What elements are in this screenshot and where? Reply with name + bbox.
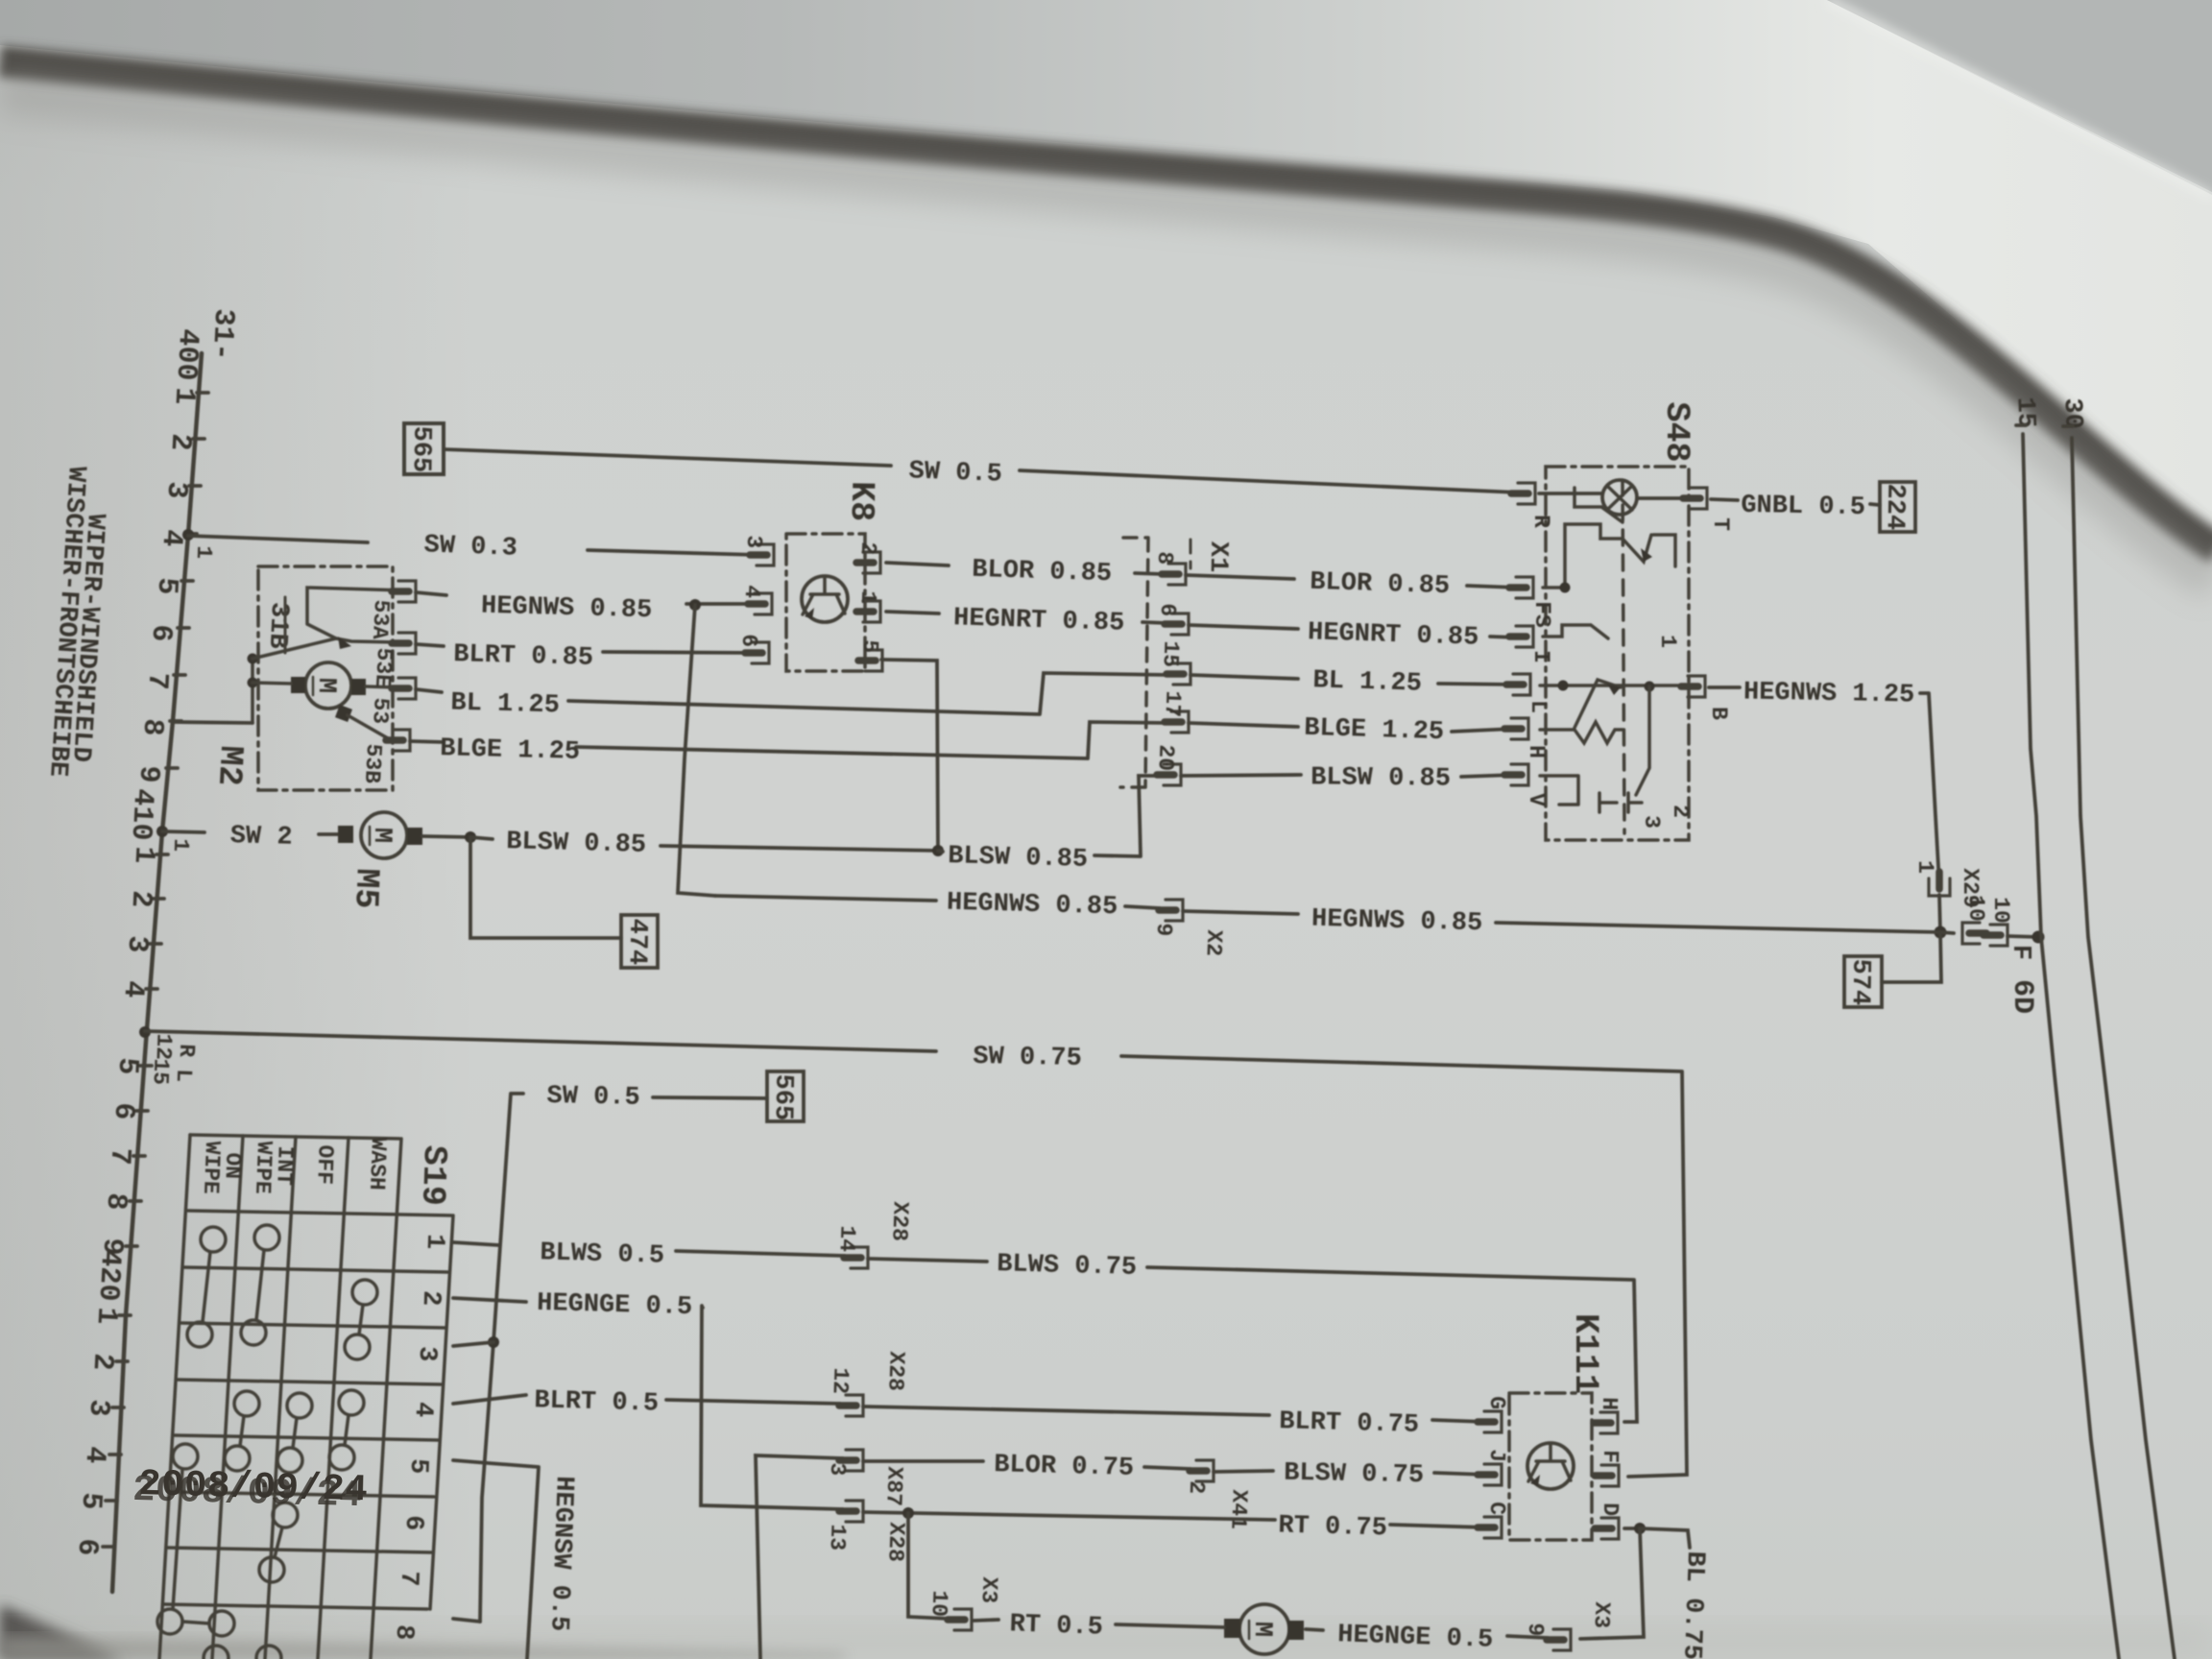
M2 internal wiper contact arm	[252, 588, 404, 659]
junction node HEGNWS/574/F6D	[1935, 926, 1947, 939]
svg-text:3: 3	[82, 1398, 115, 1417]
svg-text:V: V	[1524, 793, 1549, 806]
wire BLWS 0.5 (S19-1 to X28-14)	[453, 1242, 845, 1256]
terminal box 474	[621, 915, 658, 968]
svg-text:15: 15	[148, 1058, 174, 1085]
connector X29 pin 1	[1929, 872, 1950, 896]
svg-text:HEGNGE 0.5: HEGNGE 0.5	[1337, 1621, 1494, 1655]
svg-text:X28: X28	[882, 1522, 908, 1562]
svg-text:2: 2	[416, 1290, 445, 1307]
svg-text:53A: 53A	[367, 599, 394, 640]
bottom-left dark page corner	[0, 1605, 125, 1659]
S48 pin H	[1504, 718, 1528, 739]
svg-text:M: M	[367, 828, 396, 844]
svg-text:D: D	[1598, 1503, 1623, 1516]
svg-text:53E: 53E	[370, 647, 397, 688]
svg-text:FS: FS	[1529, 601, 1554, 628]
svg-text:6: 6	[144, 623, 178, 642]
junction node BLSW/K8-5	[932, 845, 944, 856]
svg-text:BLSW 0.75: BLSW 0.75	[1284, 1459, 1424, 1491]
svg-text:2008/09/24: 2008/09/24	[138, 1463, 369, 1511]
wire BL 1.25 (X1-15 to S48 L)	[1190, 675, 1515, 685]
svg-text:1: 1	[1912, 860, 1937, 874]
svg-text:4: 4	[408, 1402, 438, 1418]
wire from K8-5 down to BLSW row	[881, 660, 938, 851]
svg-text:HEGNRT 0.85: HEGNRT 0.85	[1308, 618, 1479, 653]
svg-text:3: 3	[741, 535, 766, 549]
svg-text:565: 565	[406, 425, 436, 472]
S48 pin T	[1683, 488, 1707, 509]
S48 internal zigzag	[1540, 722, 1623, 743]
svg-text:SW 0.5: SW 0.5	[908, 457, 1002, 489]
X1 pin 20	[1157, 764, 1181, 785]
K8 coil symbol	[802, 576, 848, 622]
wire BL 0.75 stub from K111-D	[1640, 1528, 1690, 1548]
washer pump motor M1	[1239, 1604, 1289, 1654]
svg-text:12: 12	[828, 1367, 854, 1394]
wire S19-3 to SW 0.5 junction	[453, 1342, 493, 1346]
svg-text:5: 5	[74, 1491, 108, 1510]
svg-text:224: 224	[1880, 483, 1910, 530]
svg-text:1: 1	[420, 1234, 449, 1250]
junction node on bus 15	[2032, 931, 2045, 944]
svg-text:2: 2	[1668, 805, 1693, 818]
wire HEGNSW 0.5 (S19-5 down off page)	[453, 1460, 539, 1659]
wire BLOR 0.75 (from bottom via X87-3)	[756, 1455, 843, 1659]
svg-text:GNBL 0.5: GNBL 0.5	[1741, 492, 1865, 522]
svg-text:565: 565	[768, 1073, 798, 1120]
svg-text:3: 3	[159, 480, 193, 499]
svg-text:BLSW 0.85: BLSW 0.85	[1310, 763, 1451, 793]
X1 pin 8	[1162, 564, 1186, 585]
svg-text:420: 420	[91, 1249, 127, 1303]
svg-text:1: 1	[1655, 635, 1680, 648]
bus 410 track numbers	[95, 845, 160, 1256]
wire BLRT 0.85 (M2 53E to K8 pin6)	[416, 644, 754, 653]
svg-text:HEGNGE 0.5: HEGNGE 0.5	[537, 1289, 693, 1322]
svg-text:M: M	[1247, 1622, 1276, 1638]
svg-text:BLRT 0.85: BLRT 0.85	[453, 640, 594, 673]
svg-text:R: R	[1528, 515, 1553, 528]
svg-text:6: 6	[398, 1515, 428, 1531]
svg-text:BLSW 0.85: BLSW 0.85	[506, 828, 647, 860]
wire BLWS 0.75 (X28-14 to K111-H)	[868, 1259, 1637, 1422]
S48 pin L	[1506, 674, 1530, 695]
svg-text:20: 20	[1153, 744, 1179, 771]
wire HEGNWS vertical drop to lower row	[678, 605, 715, 896]
node at track 410-5 (SW 0.75 tap)	[139, 1026, 151, 1038]
svg-text:474: 474	[622, 918, 652, 965]
svg-text:53: 53	[367, 697, 393, 725]
svg-text:1: 1	[168, 838, 193, 853]
svg-text:SW 0.5: SW 0.5	[546, 1082, 640, 1113]
junction on HEGNWS wire	[689, 599, 701, 611]
title WISCHER-FRONTSCHEIBE / WIPER-WINDSHIELD	[42, 466, 109, 778]
svg-text:10: 10	[1963, 895, 1988, 922]
svg-text:X28: X28	[882, 1351, 908, 1391]
svg-text:4: 4	[155, 528, 188, 547]
node at track 400-4	[182, 529, 194, 541]
svg-text:2: 2	[124, 889, 157, 908]
S19 contact circles and bridges	[157, 1225, 377, 1659]
wire HEGNWS 0.85 (X2-9 to F6D junction)	[1183, 911, 1940, 932]
svg-text:8: 8	[389, 1624, 419, 1641]
K8 pin 1	[856, 601, 880, 622]
S48 pin B	[1681, 676, 1705, 697]
svg-text:1: 1	[167, 386, 201, 405]
svg-text:H: H	[1597, 1397, 1622, 1410]
M2 motor symbol	[305, 662, 351, 709]
terminal box 565 (lower)	[767, 1071, 804, 1121]
svg-text:R: R	[174, 1044, 199, 1058]
M2 internal feed from bus with junction nodes	[251, 658, 254, 723]
svg-text:S48: S48	[1657, 401, 1695, 462]
connector X3 pin 10	[948, 1609, 972, 1630]
svg-text:31B: 31B	[262, 601, 294, 649]
wire SW 0.5 (to terminal 565 lower, and down to S19)	[480, 1094, 767, 1622]
svg-text:SW 0.3: SW 0.3	[423, 531, 517, 563]
wire BLOR 0.75 (X87-3 to X41-2)	[863, 1461, 1190, 1469]
svg-text:ON: ON	[220, 1152, 246, 1179]
bus 400 track ticks	[166, 393, 208, 768]
grey backdrop corner top-right	[1827, 0, 2212, 192]
wire HEGNRT 0.85 (K8-1 to X1-6)	[886, 612, 1166, 623]
svg-text:HEGNRT 0.85: HEGNRT 0.85	[953, 604, 1125, 638]
wire HEGNWS 1.25 (S48-B right and down)	[1709, 687, 1940, 932]
wire BLSW 0.85 (X1-20 to S48 V)	[1181, 775, 1515, 777]
svg-text:6: 6	[1155, 603, 1180, 617]
K8 pin 4	[748, 593, 772, 614]
junction node SW0.5 / S19-3	[488, 1336, 499, 1348]
bus 400 track numbers	[132, 386, 201, 783]
svg-text:X87: X87	[880, 1466, 906, 1506]
svg-text:BLWS 0.75: BLWS 0.75	[997, 1250, 1138, 1283]
wire S19-8 to SW 0.5 vertical	[453, 1619, 480, 1622]
svg-text:5: 5	[403, 1458, 433, 1475]
svg-text:HEGNWS 1.25: HEGNWS 1.25	[1743, 678, 1915, 709]
connector X28 pin 12	[839, 1395, 863, 1416]
svg-text:1: 1	[855, 590, 880, 605]
S48 internal contact mechanism middle (L to B)	[1540, 684, 1695, 687]
svg-text:17: 17	[1160, 690, 1186, 717]
connector X28 pin 14	[844, 1247, 868, 1268]
S48 pin V	[1504, 764, 1528, 785]
svg-text:2: 2	[163, 432, 197, 451]
svg-text:BLRT 0.75: BLRT 0.75	[1279, 1407, 1420, 1440]
S48 pin FS	[1509, 577, 1533, 598]
switch S19 contact table	[159, 1135, 453, 1659]
svg-text:F: F	[2006, 945, 2034, 960]
svg-text:4: 4	[116, 979, 150, 998]
M2 internal connections to pins	[348, 686, 397, 739]
svg-text:6: 6	[736, 634, 761, 648]
svg-text:1: 1	[89, 1306, 123, 1325]
svg-text:BL 0.75: BL 0.75	[1676, 1551, 1709, 1659]
wire BLOR 0.85 (X1-8 to S48 FS)	[1186, 575, 1517, 588]
svg-text:31-: 31-	[204, 308, 240, 362]
svg-text:M5: M5	[346, 868, 385, 909]
svg-text:BLOR 0.85: BLOR 0.85	[972, 556, 1113, 589]
X1 pin 15	[1166, 663, 1190, 685]
svg-text:9: 9	[132, 764, 165, 783]
wire track 400-8 to motor M2	[173, 722, 252, 723]
svg-text:574: 574	[1845, 958, 1875, 1005]
svg-text:BLGE 1.25: BLGE 1.25	[440, 734, 581, 767]
svg-text:1: 1	[127, 845, 160, 864]
svg-text:400: 400	[169, 328, 204, 382]
wire HEGNWS 0.85 (M2 53A to K8 pin4)	[416, 592, 757, 604]
svg-text:X3: X3	[1589, 1601, 1615, 1628]
svg-text:13: 13	[825, 1524, 851, 1551]
svg-text:BLRT 0.5: BLRT 0.5	[534, 1386, 659, 1418]
svg-text:J: J	[1484, 1449, 1509, 1462]
wire M5 to junction	[422, 836, 470, 837]
wire HEGNGE 0.5 (S19-2 down to X28-13)	[453, 1298, 843, 1509]
S48 internal contact mechanism upper	[1543, 524, 1623, 588]
wire K111-D junction	[1624, 1527, 1640, 1530]
wire BL 1.25 (M2 53 to X1-15)	[416, 673, 1169, 714]
svg-text:L: L	[1526, 700, 1551, 713]
switch S48 dash-dot box	[1546, 467, 1689, 840]
wire RT 0.75 (X28-13 to K111-C)	[863, 1512, 1486, 1527]
K8 pin 2	[856, 552, 880, 573]
K111 pin J	[1478, 1464, 1502, 1485]
svg-text:BLOR 0.75: BLOR 0.75	[994, 1451, 1135, 1483]
K111 pin H	[1594, 1412, 1618, 1433]
svg-text:BLSW 0.85: BLSW 0.85	[948, 842, 1089, 875]
S48 internal dashed divider	[1623, 480, 1624, 833]
svg-text:15: 15	[1158, 640, 1184, 667]
svg-text:BLGE 1.25: BLGE 1.25	[1304, 714, 1445, 748]
svg-text:BL 1.25: BL 1.25	[1312, 666, 1422, 699]
wire junction down to terminal 474	[470, 837, 621, 938]
svg-text:BLWS 0.5: BLWS 0.5	[540, 1238, 664, 1270]
svg-text:7: 7	[103, 1146, 136, 1166]
svg-text:B: B	[1706, 707, 1731, 720]
motor M5	[361, 812, 407, 858]
svg-text:BL 1.25: BL 1.25	[450, 689, 560, 721]
svg-text:SW 2: SW 2	[229, 822, 293, 853]
svg-text:I: I	[1528, 650, 1553, 663]
svg-text:8: 8	[135, 717, 169, 736]
svg-text:4: 4	[739, 585, 764, 599]
wire K111-D down to X3-9	[1580, 1528, 1644, 1639]
K111 coil symbol	[1527, 1443, 1574, 1489]
svg-text:5: 5	[110, 1056, 144, 1075]
svg-text:SW 0.75: SW 0.75	[973, 1043, 1082, 1073]
wire HEGNWS 0.85 (drop to X2-9)	[715, 896, 1160, 908]
svg-text:HEGNWS 0.85: HEGNWS 0.85	[481, 592, 653, 626]
svg-text:INT: INT	[271, 1145, 297, 1186]
svg-text:2: 2	[85, 1352, 119, 1371]
svg-text:4: 4	[78, 1445, 111, 1464]
M2 pin 53E	[392, 633, 416, 654]
svg-text:WASH: WASH	[364, 1137, 391, 1190]
M2 pin 53B	[386, 730, 410, 751]
S48 pin R	[1511, 483, 1535, 504]
svg-text:9: 9	[1151, 923, 1176, 937]
connector X87 pin 3	[839, 1450, 863, 1471]
S19 contact numbers	[389, 1234, 449, 1641]
connector X41 pin 2	[1190, 1460, 1214, 1481]
svg-text:BLOR 0.85: BLOR 0.85	[1310, 568, 1451, 602]
svg-text:6: 6	[70, 1537, 104, 1556]
relay K8 dash-dot box	[786, 534, 865, 671]
connector X3 pin 9	[1547, 1629, 1571, 1650]
svg-text:X41: X41	[1225, 1489, 1251, 1529]
wire to terminal 574	[1882, 932, 1941, 982]
svg-text:2: 2	[1184, 1480, 1209, 1495]
terminal box 224	[1880, 482, 1915, 532]
svg-text:RT 0.5: RT 0.5	[1009, 1610, 1103, 1642]
svg-text:1: 1	[191, 545, 216, 560]
svg-text:12: 12	[151, 1033, 177, 1060]
svg-text:8: 8	[99, 1191, 132, 1211]
X1 pin 6	[1165, 613, 1189, 635]
wire BLSW 0.75 (X41-2 to K111-J)	[1214, 1471, 1486, 1475]
svg-text:9: 9	[1523, 1623, 1548, 1637]
motor M2 dash-dot enclosure	[258, 566, 393, 790]
svg-text:K8: K8	[842, 481, 881, 522]
tap labels 12/15 R L	[148, 1033, 200, 1085]
bus 420 track numbers	[70, 1306, 123, 1556]
wire BLGE 1.25 (M2 53B to X1-17)	[410, 722, 1167, 758]
S48 internal lower section	[1540, 686, 1649, 805]
svg-text:3: 3	[412, 1346, 442, 1362]
svg-text:X2: X2	[1201, 929, 1227, 956]
svg-text:S19: S19	[413, 1144, 453, 1206]
svg-text:3: 3	[1639, 815, 1664, 829]
K8 pin 5	[858, 650, 882, 671]
svg-text:6D: 6D	[2006, 979, 2038, 1014]
svg-text:6: 6	[107, 1101, 140, 1120]
svg-text:53B: 53B	[359, 743, 386, 784]
bus 31-400 (left vertical bus)	[112, 353, 202, 1592]
connector 10/10 to fuse	[1940, 932, 1954, 933]
svg-text:3: 3	[120, 934, 154, 953]
svg-text:RT 0.75: RT 0.75	[1278, 1512, 1387, 1544]
K8 pin 6	[745, 642, 769, 663]
relay K111 dash-dot box	[1509, 1393, 1592, 1540]
K111 pin F	[1595, 1465, 1619, 1486]
svg-text:G: G	[1484, 1396, 1509, 1409]
svg-text:7: 7	[394, 1571, 423, 1587]
M2 pin 53	[392, 678, 416, 699]
wire BLRT 0.5 (S19-4 to X28-12)	[453, 1395, 840, 1404]
wire BLRT 0.75 (X28-12 to K111-G)	[863, 1407, 1486, 1422]
connector X28 pin 13	[839, 1501, 863, 1522]
svg-text:3: 3	[825, 1462, 850, 1477]
wire RT 0.5 (X3-10 to M1)	[974, 1620, 1224, 1627]
svg-text:14: 14	[834, 1225, 860, 1253]
terminal box 574	[1844, 956, 1882, 1007]
svg-text:M: M	[311, 678, 340, 694]
svg-text:5: 5	[150, 576, 183, 595]
X1 pin 17	[1165, 711, 1189, 733]
wire SW 2 (bus 410-1 to M5)	[162, 831, 338, 834]
svg-text:C: C	[1484, 1502, 1509, 1515]
wire BLOR 0.85 (K8-2 to X1-8)	[886, 563, 1164, 574]
facing page bright strip (top)	[0, 0, 2212, 538]
svg-text:K111: K111	[1566, 1313, 1604, 1394]
junction node RT branch	[902, 1507, 914, 1519]
wire GNBL 0.5 (S48-T to 224)	[1711, 499, 1880, 505]
svg-text:X3: X3	[976, 1576, 1002, 1603]
wire BLSW 0.85 (junction to X1-20)	[938, 776, 1160, 856]
wire BLSW 0.85 (M5 junction to K8-5 junction)	[470, 837, 938, 851]
wire SW 0.3 track 400-4 to K8 pin 3	[188, 536, 758, 555]
svg-text:8: 8	[1152, 551, 1177, 565]
K111 pin G	[1478, 1411, 1502, 1432]
svg-text:10: 10	[926, 1590, 952, 1617]
connector X1 (dashed)	[1120, 538, 1148, 787]
M2 pin 53A	[392, 581, 416, 602]
S48 pin I	[1509, 626, 1533, 647]
svg-text:410: 410	[124, 788, 159, 842]
svg-text:OFF: OFF	[311, 1144, 337, 1185]
wire SW 0.75 (bus 410 tap across page, down right side)	[145, 1031, 1687, 1477]
wire SW 0.5 from 565 to S48 pin R	[444, 449, 1519, 493]
K111 pin D	[1595, 1518, 1619, 1539]
wire RT 0.5 branch down to X3-10	[908, 1513, 949, 1619]
K8 pin 3	[750, 544, 774, 565]
junction node M5 out	[465, 831, 476, 843]
node at track 410-1	[156, 826, 168, 837]
svg-text:X1: X1	[1203, 541, 1233, 573]
wire HEGNGE 0.5 (M1 to X3-9)	[1306, 1629, 1548, 1638]
svg-text:7: 7	[140, 671, 174, 690]
terminal box 565 (top)	[404, 423, 444, 474]
svg-text:H: H	[1524, 745, 1549, 758]
svg-text:HEGNSW 0.5: HEGNSW 0.5	[543, 1476, 578, 1632]
S48 pilot lamp	[1602, 480, 1637, 515]
svg-text:10: 10	[1988, 897, 2013, 924]
shadow band under page edge	[0, 61, 2212, 549]
svg-text:5: 5	[857, 639, 882, 654]
date stamp 2008/09/24	[132, 1463, 369, 1517]
svg-text:F: F	[1598, 1450, 1623, 1463]
svg-text:L: L	[171, 1069, 196, 1083]
K111 pin C	[1478, 1517, 1502, 1538]
svg-text:X28: X28	[886, 1201, 912, 1241]
svg-text:HEGNWS 0.85: HEGNWS 0.85	[947, 889, 1118, 923]
connector X2 pin 9	[1159, 900, 1183, 921]
svg-text:M2: M2	[209, 744, 250, 786]
wire HEGNRT 0.85 (X1-6 to S48 I)	[1189, 625, 1517, 637]
wire BLGE 1.25 (X1-17 to S48 H)	[1189, 723, 1515, 732]
svg-text:HEGNWS 0.85: HEGNWS 0.85	[1311, 905, 1483, 939]
svg-text:2: 2	[855, 541, 880, 556]
svg-text:T: T	[1708, 517, 1733, 531]
